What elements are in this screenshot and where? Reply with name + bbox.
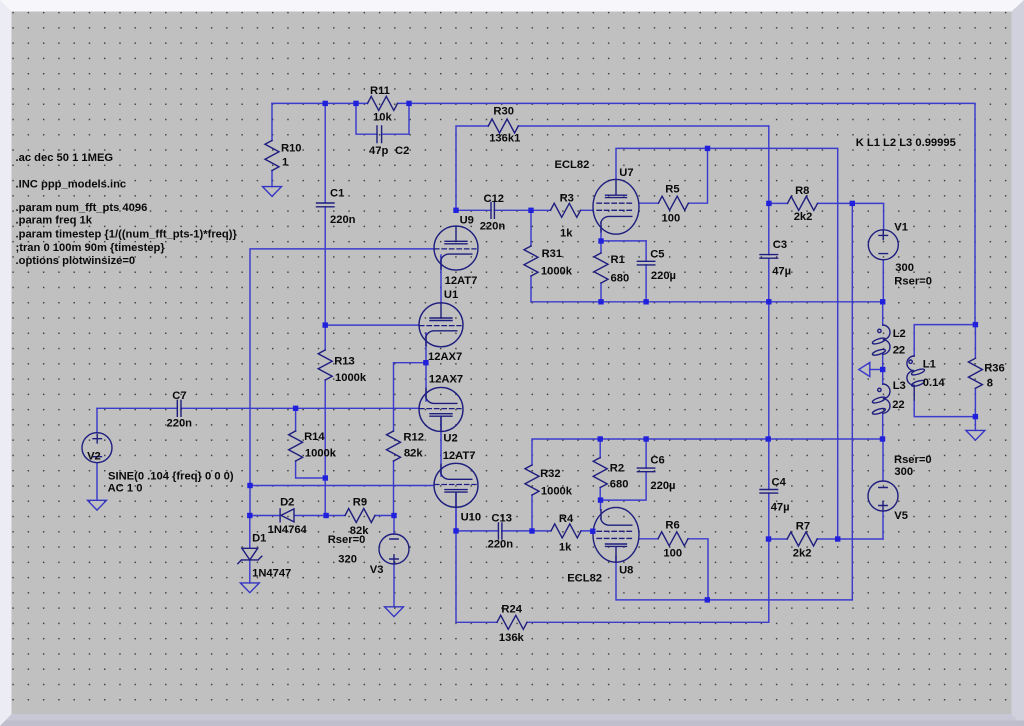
- svg-text:22: 22: [892, 399, 904, 411]
- svg-text:R8: R8: [795, 185, 809, 197]
- svg-text:R5: R5: [665, 184, 679, 196]
- svg-text:12AX7: 12AX7: [428, 351, 462, 363]
- svg-text:SINE(0 .104 {freq} 0 0 0): SINE(0 .104 {freq} 0 0 0): [108, 471, 234, 483]
- svg-text:R13: R13: [334, 356, 355, 368]
- svg-text:;tran 0 100m 90m {timestep}: ;tran 0 100m 90m {timestep}: [16, 242, 166, 254]
- svg-text:136k1: 136k1: [489, 132, 520, 144]
- svg-text:.param timestep {1/((num_fft_p: .param timestep {1/((num_fft_pts-1)*freq…: [16, 228, 238, 240]
- svg-text:12AT7: 12AT7: [443, 450, 476, 462]
- svg-text:C6: C6: [650, 454, 664, 466]
- svg-text:C1: C1: [330, 188, 344, 200]
- svg-text:R12: R12: [403, 431, 424, 443]
- svg-text:R6: R6: [665, 520, 679, 532]
- svg-text:.param num_fft_pts 4096: .param num_fft_pts 4096: [16, 202, 148, 214]
- svg-text:AC 1 0: AC 1 0: [108, 482, 143, 494]
- svg-text:100: 100: [663, 548, 682, 560]
- svg-text:ECL82: ECL82: [567, 573, 602, 585]
- svg-text:D1: D1: [252, 533, 266, 545]
- svg-text:82k: 82k: [404, 448, 423, 460]
- svg-text:R1: R1: [611, 254, 625, 266]
- svg-text:V3: V3: [370, 564, 384, 576]
- svg-text:220n: 220n: [480, 221, 506, 233]
- svg-text:R2: R2: [610, 462, 624, 474]
- svg-text:C5: C5: [650, 249, 664, 261]
- svg-text:1k: 1k: [560, 227, 573, 239]
- svg-text:V2: V2: [87, 451, 101, 463]
- svg-text:220µ: 220µ: [650, 480, 675, 492]
- svg-text:D2: D2: [280, 497, 294, 509]
- svg-text:1000k: 1000k: [305, 448, 337, 460]
- svg-text:L1: L1: [923, 358, 936, 370]
- svg-text:R24: R24: [501, 603, 522, 615]
- svg-text:U7: U7: [619, 167, 633, 179]
- svg-text:2k2: 2k2: [794, 211, 813, 223]
- svg-text:R10: R10: [281, 143, 302, 155]
- svg-text:Rser=0: Rser=0: [894, 275, 932, 287]
- svg-text:R3: R3: [560, 192, 574, 204]
- svg-text:47p: 47p: [369, 145, 388, 157]
- svg-text:R7: R7: [796, 521, 810, 533]
- svg-text:47µ: 47µ: [772, 266, 791, 278]
- svg-text:320: 320: [338, 553, 357, 565]
- svg-text:220µ: 220µ: [651, 270, 676, 282]
- svg-text:1k: 1k: [559, 541, 572, 553]
- svg-text:136k: 136k: [499, 632, 525, 644]
- svg-text:L3: L3: [893, 380, 906, 392]
- svg-text:680: 680: [611, 273, 630, 285]
- svg-text:2k2: 2k2: [793, 548, 812, 560]
- svg-text:Rser=0: Rser=0: [894, 454, 932, 466]
- svg-text:1000k: 1000k: [335, 372, 367, 384]
- svg-text:8: 8: [987, 377, 993, 389]
- svg-text:.INC ppp_models.inc: .INC ppp_models.inc: [16, 179, 127, 191]
- svg-text:Rser=0: Rser=0: [328, 534, 366, 546]
- svg-text:ECL82: ECL82: [555, 159, 590, 171]
- svg-text:U10: U10: [461, 512, 482, 524]
- svg-text:300: 300: [895, 262, 914, 274]
- svg-text:1N4764: 1N4764: [268, 524, 308, 536]
- svg-text:K L1 L2 L3 0.99995: K L1 L2 L3 0.99995: [856, 137, 956, 149]
- svg-text:.param freq 1k: .param freq 1k: [16, 215, 93, 227]
- svg-text:C3: C3: [773, 239, 787, 251]
- svg-text:680: 680: [610, 479, 629, 491]
- svg-text:R11: R11: [370, 85, 390, 97]
- svg-text:300: 300: [894, 466, 913, 478]
- svg-text:U1: U1: [444, 289, 458, 301]
- svg-text:220n: 220n: [330, 214, 356, 226]
- svg-text:U9: U9: [460, 214, 474, 226]
- svg-text:.ac dec 50 1 1MEG: .ac dec 50 1 1MEG: [16, 152, 114, 164]
- svg-text:220n: 220n: [488, 539, 514, 551]
- svg-text:10k: 10k: [373, 112, 392, 124]
- svg-text:R4: R4: [559, 513, 574, 525]
- svg-text:U2: U2: [443, 433, 457, 445]
- svg-text:V5: V5: [894, 510, 908, 522]
- svg-text:.options plotwinsize=0: .options plotwinsize=0: [16, 255, 136, 267]
- svg-text:12AT7: 12AT7: [445, 275, 478, 287]
- svg-text:R36: R36: [984, 362, 1005, 374]
- svg-text:0.14: 0.14: [923, 377, 946, 389]
- svg-text:R31: R31: [542, 248, 563, 260]
- svg-text:R9: R9: [353, 497, 367, 509]
- svg-text:1N4747: 1N4747: [252, 568, 291, 580]
- svg-text:L2: L2: [893, 328, 906, 340]
- svg-text:R30: R30: [493, 105, 514, 117]
- svg-text:1: 1: [282, 156, 288, 168]
- svg-text:C4: C4: [772, 477, 787, 489]
- svg-text:22: 22: [893, 345, 905, 357]
- svg-text:U8: U8: [619, 564, 633, 576]
- svg-text:12AX7: 12AX7: [429, 374, 463, 386]
- svg-text:1000k: 1000k: [541, 486, 573, 498]
- svg-text:47µ: 47µ: [771, 502, 790, 514]
- svg-text:V1: V1: [894, 222, 908, 234]
- svg-text:C12: C12: [484, 193, 505, 205]
- svg-text:R32: R32: [540, 468, 561, 480]
- svg-text:220n: 220n: [167, 417, 193, 429]
- svg-text:R14: R14: [304, 431, 325, 443]
- svg-text:100: 100: [662, 213, 681, 225]
- svg-text:C7: C7: [172, 390, 186, 402]
- svg-text:C2: C2: [395, 145, 409, 157]
- svg-text:C13: C13: [491, 512, 512, 524]
- svg-text:1000k: 1000k: [541, 266, 573, 278]
